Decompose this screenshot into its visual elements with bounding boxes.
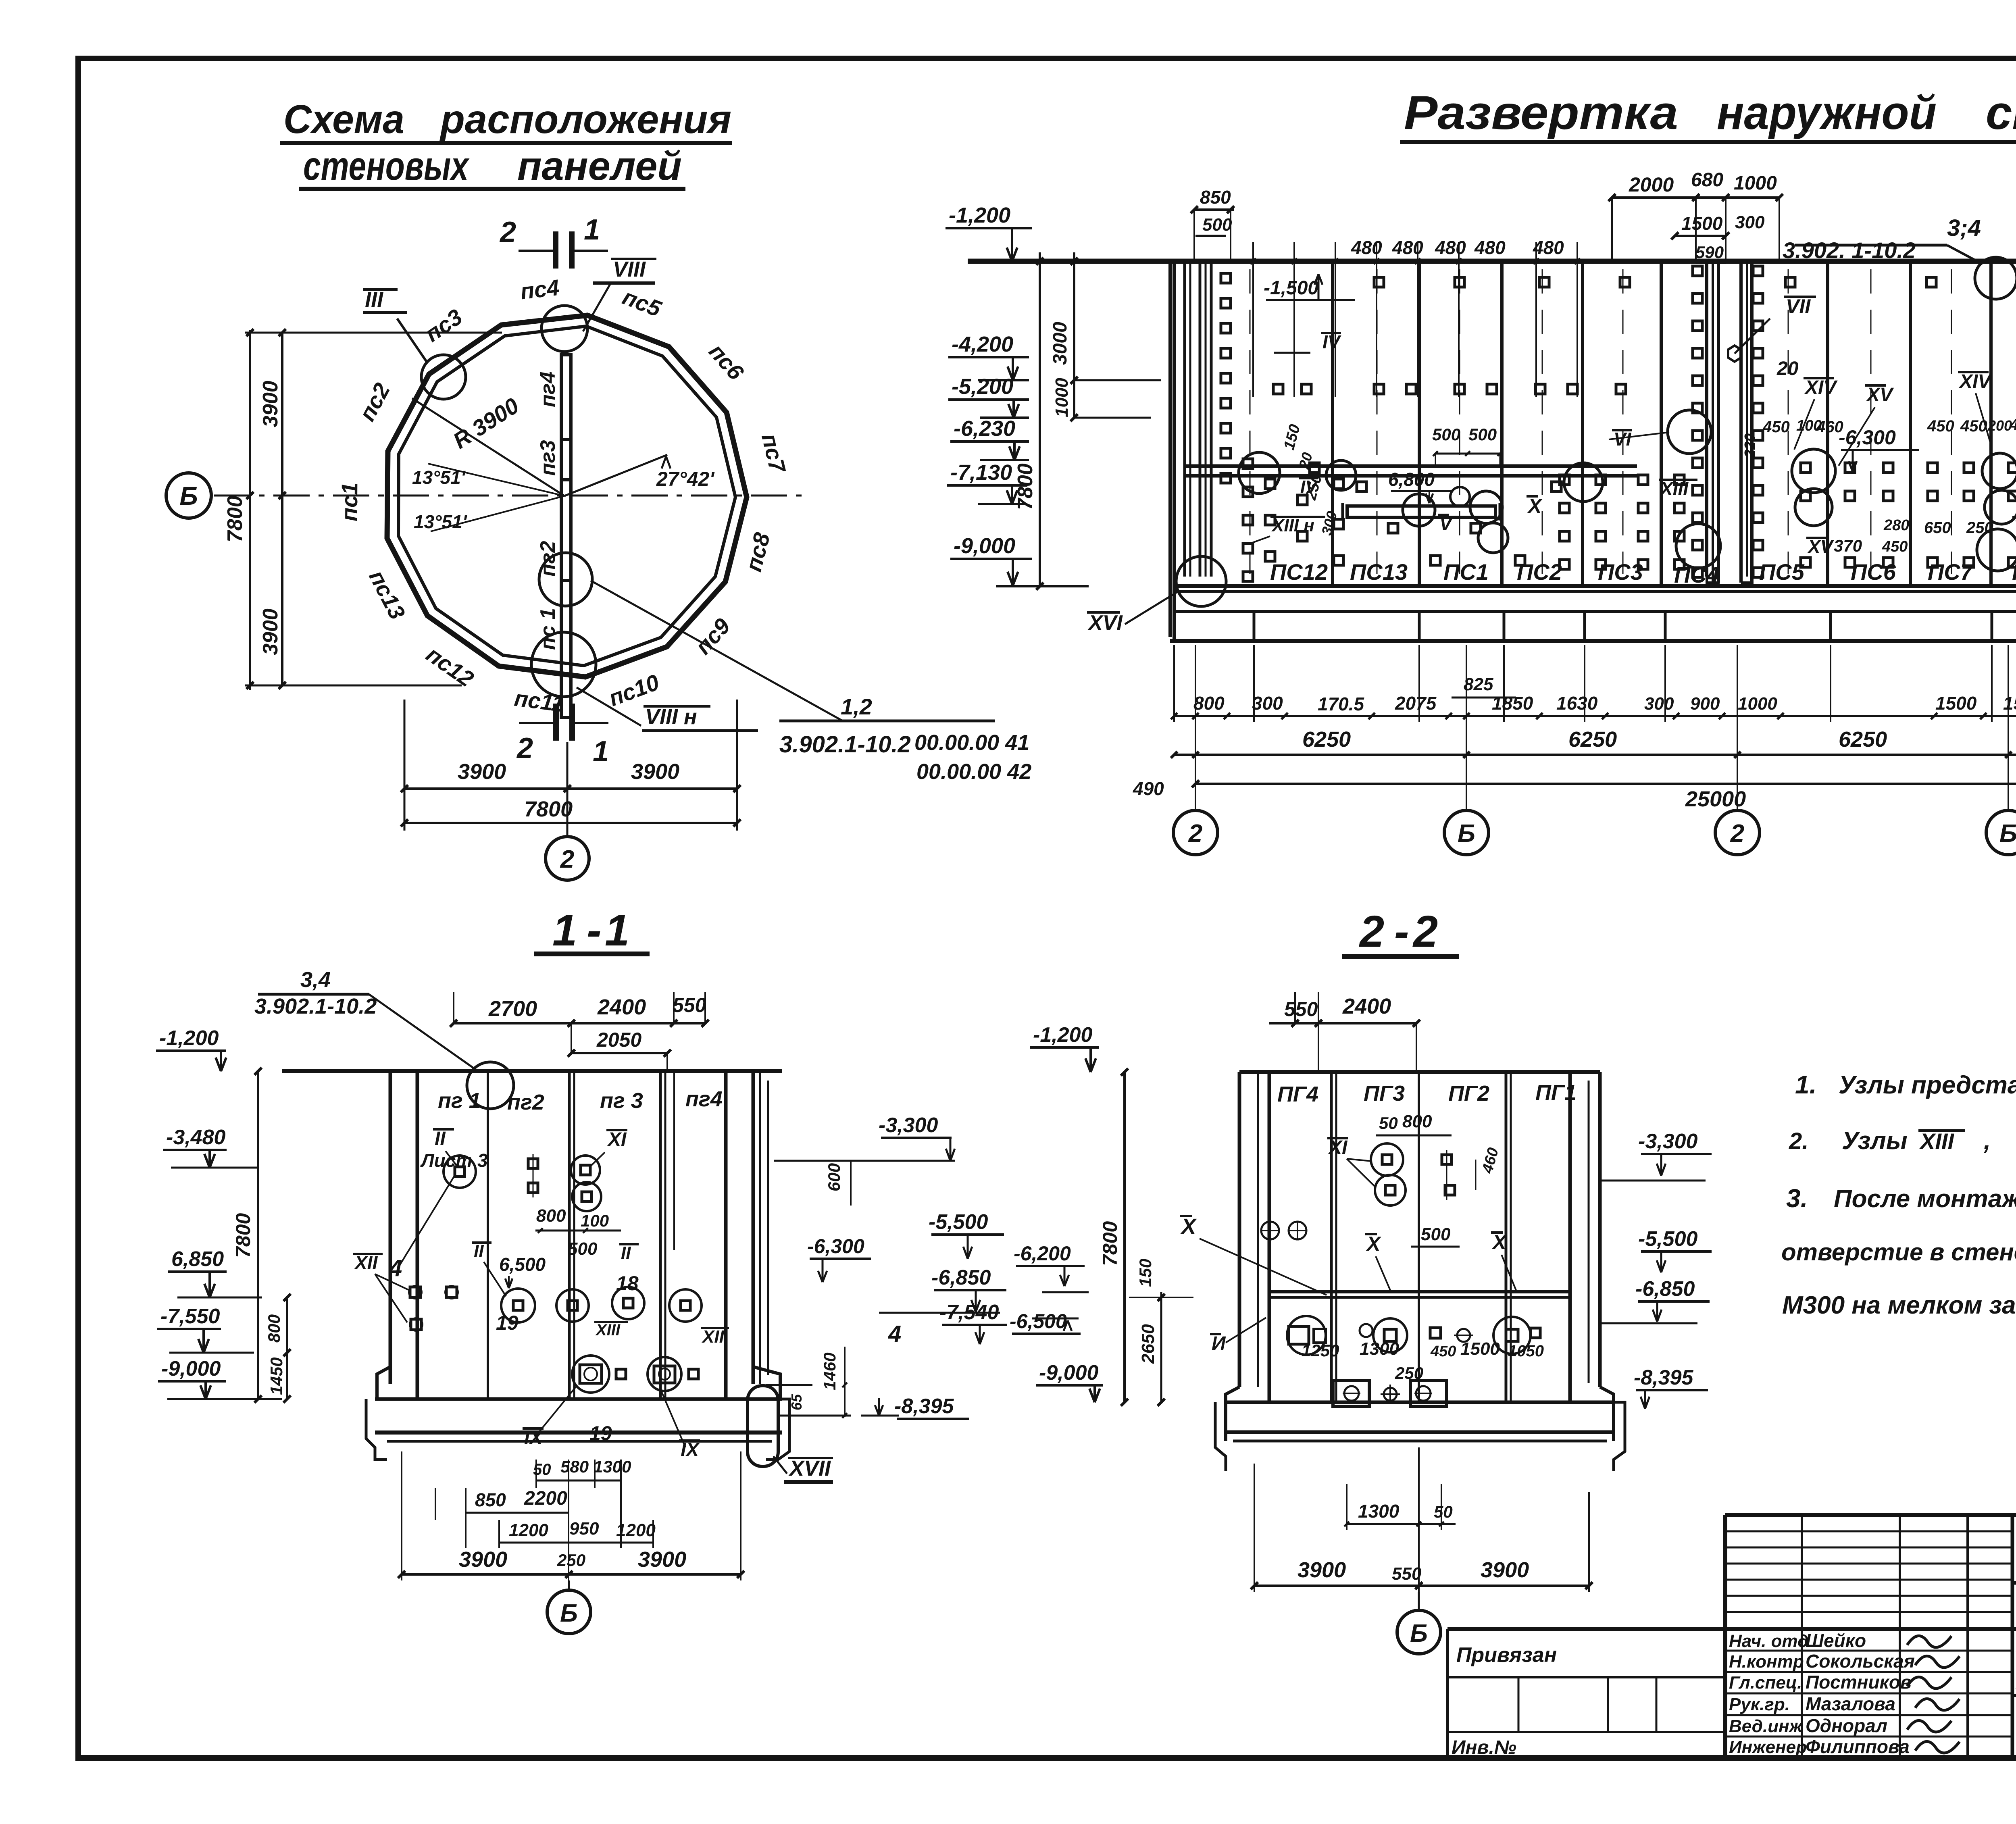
svg-text:1200: 1200 — [616, 1520, 656, 1540]
svg-text:-6,300: -6,300 — [1839, 426, 1896, 449]
svg-text:ПГ3: ПГ3 — [1364, 1081, 1405, 1106]
svg-text:6,800: 6,800 — [1388, 469, 1435, 490]
svg-text:300: 300 — [1318, 509, 1340, 537]
svg-text:VI: VI — [2014, 516, 2016, 537]
svg-text:480: 480 — [1351, 237, 1382, 258]
svg-text:пг 3: пг 3 — [600, 1089, 643, 1113]
development: dim row 25000 — [1192, 780, 2016, 811]
svg-text:-5,500: -5,500 — [929, 1210, 988, 1234]
svg-text:-1,200: -1,200 — [949, 203, 1010, 227]
development: wall top edge — [968, 259, 2016, 264]
svg-text:800: 800 — [536, 1206, 566, 1226]
section1: panel labels — [438, 1087, 723, 1114]
svg-text:2075: 2075 — [1395, 693, 1437, 714]
svg-text:1460: 1460 — [820, 1353, 839, 1390]
svg-text:19: 19 — [496, 1312, 519, 1334]
svg-text:2: 2 — [499, 216, 516, 248]
stamp: signature rows — [1725, 1629, 2012, 1758]
svg-text:1500: 1500 — [1681, 213, 1723, 234]
svg-text:1500: 1500 — [2003, 693, 2016, 714]
svg-text:II: II — [474, 1241, 484, 1261]
svg-text:150: 150 — [1136, 1259, 1155, 1287]
svg-text:480: 480 — [1392, 237, 1423, 258]
development: panel label ПС3 — [1598, 559, 1643, 585]
svg-text:Развертка: Развертка — [1404, 86, 1678, 140]
plan: radius line R3900 — [412, 393, 564, 496]
svg-text:-5,200: -5,200 — [952, 375, 1013, 399]
svg-text:480: 480 — [1474, 237, 1506, 258]
development: grid bubbles — [1173, 645, 2016, 855]
stamp: left edge of revision table — [1723, 1515, 1727, 1758]
svg-text:1000: 1000 — [1738, 694, 1777, 714]
svg-text:-6,300: -6,300 — [807, 1235, 864, 1258]
plan: bottom dim 3900+3900 — [401, 700, 741, 831]
svg-text:-: - — [587, 906, 602, 955]
section2: left elevations — [1010, 1023, 1193, 1406]
development: top dims 2000-680-1000 — [1608, 169, 1783, 263]
svg-text:2: 2 — [1412, 907, 1438, 956]
svg-text:280: 280 — [1883, 517, 1909, 534]
plan: wall panel label ПС3 — [420, 304, 467, 347]
svg-text:220: 220 — [1741, 433, 1758, 458]
svg-text:1200: 1200 — [509, 1520, 548, 1540]
svg-text:550: 550 — [1284, 998, 1318, 1020]
stamp: outer top line — [1725, 1513, 2016, 1517]
svg-text:VIII: VIII — [613, 257, 646, 281]
svg-text:460: 460 — [1816, 418, 1843, 436]
svg-text:XII: XII — [354, 1252, 378, 1273]
development: top dims 850/500/480 — [1191, 187, 1564, 261]
svg-text:19: 19 — [589, 1422, 612, 1445]
section1: left vertical dims — [232, 1068, 291, 1403]
svg-text:590: 590 — [1695, 243, 1724, 262]
svg-text:М300 на мелком заполните: М300 на мелком заполнителе. — [1782, 1291, 2016, 1319]
svg-text:1000: 1000 — [1734, 173, 1777, 194]
svg-text:3900: 3900 — [631, 760, 679, 784]
svg-text:X: X — [1491, 1231, 1507, 1253]
svg-text:1050: 1050 — [1508, 1342, 1544, 1360]
svg-text:XIII: XIII — [595, 1321, 621, 1339]
stamp: revision table — [1725, 1515, 2012, 1629]
note 3b — [1781, 1239, 2016, 1266]
plan: wall panel label ПС8 — [741, 530, 775, 574]
svg-text:ПГ1: ПГ1 — [1535, 1081, 1577, 1105]
svg-text:3;4: 3;4 — [1947, 215, 1981, 241]
svg-text:XV: XV — [1866, 384, 1894, 406]
svg-text:3900: 3900 — [1481, 1558, 1529, 1582]
development: node circles — [1239, 257, 2016, 581]
section1: callout 3,4 — [254, 968, 514, 1109]
svg-text:2: 2 — [560, 845, 574, 873]
development: panel label ПС2 — [1517, 559, 1562, 585]
svg-text:20: 20 — [1776, 358, 1799, 379]
svg-text:250: 250 — [557, 1551, 585, 1570]
plan: wall panel label ПС10 — [605, 669, 662, 711]
svg-text:Рук.гр.: Рук.гр. — [1729, 1695, 1790, 1714]
svg-text:XVI: XVI — [1087, 611, 1123, 635]
svg-text:Нач. отд: Нач. отд — [1729, 1631, 1808, 1651]
plan: axis Б center line — [214, 495, 802, 497]
development: panel label ПС8 — [2012, 559, 2016, 585]
development: wall bottom edge — [1174, 586, 2016, 591]
svg-text:ПГ2: ПГ2 — [1448, 1081, 1489, 1106]
svg-text:стеновых: стеновых — [303, 144, 470, 189]
svg-text:1500: 1500 — [1460, 1339, 1500, 1359]
section1: bottom slab — [366, 1367, 789, 1460]
svg-text:7800: 7800 — [524, 797, 573, 821]
svg-text:-5,500: -5,500 — [1638, 1227, 1698, 1251]
title: 2-2 — [1342, 907, 1459, 956]
plan: angle lines 13°51 — [412, 464, 564, 532]
svg-text:500: 500 — [568, 1239, 598, 1259]
svg-text:800: 800 — [1193, 693, 1225, 714]
svg-text:XI: XI — [1328, 1137, 1348, 1158]
svg-text:V: V — [1439, 513, 1453, 534]
svg-text:65: 65 — [788, 1394, 805, 1410]
plan: labels пг1-пг4 — [536, 371, 560, 650]
svg-text:490: 490 — [1133, 778, 1164, 799]
plan: wall panel label ПС13 — [364, 566, 410, 623]
svg-text:Б: Б — [560, 1599, 578, 1627]
svg-text:480: 480 — [1435, 237, 1466, 258]
svg-text:3900: 3900 — [458, 760, 506, 784]
svg-text:4: 4 — [389, 1255, 402, 1281]
svg-text:После монтажа сальников и: После монтажа сальников и приварки — [1834, 1185, 2016, 1213]
svg-text:ПС7: ПС7 — [1928, 559, 1974, 585]
svg-text:850: 850 — [475, 1489, 506, 1510]
svg-text:IV: IV — [1322, 331, 1341, 352]
title: стеновых панелей — [299, 144, 685, 189]
svg-text:3900: 3900 — [259, 381, 282, 427]
svg-text:170.5: 170.5 — [1318, 693, 1365, 714]
svg-text:VII: VII — [1786, 295, 1811, 318]
section1: top dims — [450, 992, 709, 1071]
svg-text:Н.контр: Н.контр — [1729, 1652, 1804, 1672]
section2: walls — [1239, 1072, 1600, 1402]
development: left elevation marks — [946, 203, 1089, 586]
svg-text:13°51': 13°51' — [412, 467, 466, 488]
svg-text:Мазалова: Мазалова — [1806, 1693, 1895, 1714]
svg-text:3900: 3900 — [459, 1547, 507, 1572]
section1: grid bubble Б — [547, 1580, 591, 1634]
svg-text:1,2: 1,2 — [841, 694, 872, 719]
svg-text:2400: 2400 — [1342, 994, 1391, 1018]
svg-text:отверстие в стене забетонир: отверстие в стене забетонировать бетоном… — [1781, 1239, 2016, 1266]
note 3a — [1786, 1184, 2016, 1213]
svg-text:500: 500 — [1421, 1224, 1451, 1244]
svg-text:1: 1 — [593, 735, 609, 768]
plan: wall panel label ПС11 — [513, 685, 565, 717]
svg-text:150: 150 — [1281, 423, 1304, 452]
svg-text:3900: 3900 — [259, 608, 282, 655]
plan: node circle III — [363, 288, 466, 399]
title: Схема расположения — [280, 97, 732, 143]
section1: top edge — [282, 1069, 782, 1073]
svg-text:пс7: пс7 — [757, 431, 791, 476]
svg-text:Однорал: Однорал — [1806, 1715, 1887, 1736]
svg-text:XIV: XIV — [1958, 371, 1992, 392]
svg-text:1850: 1850 — [1492, 693, 1533, 714]
svg-text:Вед.инж: Вед.инж — [1729, 1716, 1804, 1736]
plan: section mark bottom — [516, 704, 609, 768]
svg-text:550: 550 — [673, 994, 706, 1016]
svg-text:800: 800 — [1402, 1112, 1432, 1131]
svg-text:пс1: пс1 — [337, 482, 362, 521]
section2: panel labels — [1277, 1081, 1577, 1106]
svg-text:Постников: Постников — [1806, 1672, 1912, 1693]
plan: grid bubble Б — [166, 473, 211, 518]
development: panel label ПС13 — [1350, 559, 1408, 585]
svg-text:И: И — [1212, 1333, 1226, 1354]
svg-text:XIV: XIV — [1804, 377, 1838, 398]
section2: right elevations — [1600, 1130, 1712, 1409]
svg-text:пг4: пг4 — [536, 371, 560, 407]
section1: foot detail XVII — [748, 1386, 833, 1482]
svg-text:1450: 1450 — [267, 1358, 286, 1395]
section1: left elevations — [156, 1027, 282, 1399]
svg-text:3.902.1-10.2: 3.902.1-10.2 — [254, 994, 377, 1018]
svg-text:2650: 2650 — [1138, 1324, 1158, 1364]
plan: left dim lines — [223, 329, 502, 690]
svg-text:-6,200: -6,200 — [1014, 1242, 1071, 1265]
development: panel label ПС1 — [1443, 559, 1489, 585]
svg-text:-: - — [1394, 907, 1409, 956]
svg-text:3000: 3000 — [1050, 322, 1071, 365]
development: panel label ПС6 — [1851, 559, 1896, 585]
svg-text:пг3: пг3 — [536, 440, 560, 476]
development: embedded plate squares — [1221, 266, 2016, 581]
svg-text:3.902. 1-10.2: 3.902. 1-10.2 — [1783, 237, 1916, 263]
svg-text:ПС5: ПС5 — [1759, 559, 1805, 585]
svg-text:1300: 1300 — [594, 1457, 631, 1476]
svg-text:460: 460 — [1479, 1146, 1502, 1175]
svg-text:пс6: пс6 — [704, 339, 749, 385]
svg-text:Привязан: Привязан — [1456, 1643, 1557, 1667]
development: node labels — [1087, 274, 2016, 635]
svg-text:Шейко: Шейко — [1806, 1630, 1866, 1651]
section1: interior joints — [488, 1071, 674, 1399]
svg-text:200: 200 — [1987, 417, 2012, 434]
svg-text:3.: 3. — [1786, 1184, 1808, 1213]
svg-text:2: 2 — [1359, 907, 1384, 956]
svg-text:-6,230: -6,230 — [954, 416, 1015, 441]
development: panel label ПС4 — [1674, 562, 1719, 587]
svg-text:3900: 3900 — [638, 1547, 686, 1572]
development: dim row 6250 — [1133, 727, 2016, 799]
svg-text:XVII: XVII — [788, 1456, 831, 1480]
svg-text:1250: 1250 — [1302, 1341, 1339, 1360]
svg-text:пс5: пс5 — [619, 284, 665, 322]
svg-text:7800: 7800 — [1099, 1221, 1121, 1266]
note 1 — [1795, 1069, 2016, 1099]
plan: wall panel label ПС9 — [690, 613, 735, 659]
section2: grid bubble Б — [1397, 1592, 1441, 1654]
svg-text:XV: XV — [1807, 536, 1834, 557]
svg-text:Филиппова: Филиппова — [1806, 1736, 1910, 1757]
plan: wall panel label ПС4 — [519, 275, 560, 304]
svg-text:ПС4: ПС4 — [1674, 562, 1719, 587]
development: panel label ПС7 — [1928, 559, 1974, 585]
plan: leader 1,2 and doc refs — [591, 581, 1031, 784]
svg-text:1630: 1630 — [1556, 693, 1598, 714]
svg-text:850: 850 — [1200, 187, 1231, 208]
development: panel label ПС12 — [1270, 559, 1328, 585]
svg-text:50: 50 — [1379, 1114, 1398, 1133]
svg-text:XI: XI — [607, 1129, 627, 1150]
svg-text:370: 370 — [1834, 536, 1862, 555]
svg-text:7800: 7800 — [1014, 463, 1037, 510]
svg-text:-1,500: -1,500 — [1264, 277, 1318, 299]
svg-text:,: , — [1983, 1127, 1991, 1155]
development: panel joints — [1333, 261, 2016, 586]
development: left vertical dims — [1014, 252, 1161, 590]
svg-text:ПС1: ПС1 — [1443, 559, 1489, 585]
svg-text:-9,000: -9,000 — [1039, 1361, 1099, 1385]
svg-text:2.: 2. — [1789, 1128, 1808, 1154]
svg-text:1300: 1300 — [1358, 1501, 1400, 1522]
note 3c — [1782, 1291, 2016, 1319]
development: pipe strip — [1185, 425, 1637, 521]
svg-text:18: 18 — [616, 1272, 639, 1295]
stamp: TP cell + number — [2012, 1515, 2016, 1758]
section2: interior details — [1180, 1112, 1544, 1406]
plan: section mark top — [499, 214, 608, 269]
svg-text:6,850: 6,850 — [171, 1247, 224, 1271]
svg-text:550: 550 — [1392, 1564, 1422, 1584]
svg-text:6250: 6250 — [1302, 727, 1351, 752]
svg-text:стены: стены — [1986, 86, 2016, 140]
svg-text:Б: Б — [1410, 1620, 1428, 1647]
svg-text:ПС6: ПС6 — [1851, 559, 1896, 585]
plan: angle line 27°42 — [564, 455, 715, 496]
svg-text:-3,300: -3,300 — [879, 1114, 938, 1137]
section2: bottom dims — [1251, 1447, 1593, 1592]
section2: bottom slab — [1215, 1387, 1625, 1471]
svg-text:пс2: пс2 — [354, 379, 395, 425]
svg-text:Б: Б — [1458, 820, 1475, 847]
svg-text:00.00.00 42: 00.00.00 42 — [916, 760, 1031, 784]
svg-text:7800: 7800 — [223, 496, 247, 542]
svg-text:900: 900 — [1690, 694, 1720, 714]
development: left outer edge — [1170, 261, 1174, 641]
svg-text:расположения: расположения — [439, 97, 731, 142]
svg-text:-8,395: -8,395 — [894, 1395, 954, 1418]
section1: right elevations — [766, 1114, 1007, 1419]
svg-text:1500: 1500 — [1935, 693, 1977, 714]
svg-text:Узлы представлены на л.: Узлы представлены на л. — [1839, 1071, 2016, 1099]
stamp: main divider — [1447, 1627, 2016, 1631]
development: ring beam band — [1174, 610, 2016, 613]
development: corner circle XVI — [1176, 556, 1226, 606]
svg-text:2400: 2400 — [597, 995, 646, 1019]
plan: wall panel label ПС5 — [619, 284, 665, 322]
development: top dim witness 480 — [1250, 242, 1580, 397]
svg-text:наружной: наружной — [1717, 86, 1937, 140]
svg-text:450: 450 — [1960, 417, 1987, 435]
section1: interior details — [353, 1128, 729, 1461]
svg-text:XIII: XIII — [1919, 1129, 1954, 1154]
svg-text:450: 450 — [1927, 417, 1954, 435]
svg-text:100: 100 — [581, 1211, 609, 1230]
svg-text:Б: Б — [1999, 820, 2016, 847]
svg-text:27°42': 27°42' — [656, 468, 715, 490]
plan: node circle mid — [539, 553, 592, 606]
svg-text:6250: 6250 — [1839, 727, 1887, 752]
svg-text:XII: XII — [701, 1327, 725, 1347]
development: panel label ПС5 — [1759, 559, 1805, 585]
section2: top edge — [1239, 1070, 1600, 1074]
svg-text:2: 2 — [1188, 820, 1202, 847]
svg-text:III: III — [365, 288, 383, 312]
svg-text:1: 1 — [552, 906, 577, 955]
svg-text:пс4: пс4 — [519, 275, 560, 304]
plan: wall panel label ПС2 — [354, 379, 395, 425]
svg-text:950: 950 — [569, 1519, 599, 1539]
svg-text:2000: 2000 — [1629, 173, 1674, 196]
svg-text:Инв.№: Инв.№ — [1452, 1737, 1516, 1758]
svg-text:3.902.1-10.2: 3.902.1-10.2 — [779, 731, 911, 758]
svg-text:-7,550: -7,550 — [160, 1305, 220, 1328]
svg-text:-3,480: -3,480 — [166, 1126, 226, 1149]
svg-text:450: 450 — [1430, 1343, 1456, 1360]
development: left edge groove lines — [1185, 261, 1211, 577]
svg-text:-7,540: -7,540 — [939, 1301, 999, 1324]
svg-text:X: X — [1180, 1214, 1197, 1239]
development: callout 3;4 — [1783, 215, 1983, 264]
svg-text:-7,130: -7,130 — [950, 460, 1012, 485]
title: Развертка наружной стены — [1400, 86, 2016, 142]
development: panel centerlines — [1250, 269, 2016, 574]
plan: label VIII H — [577, 687, 758, 731]
svg-text:II: II — [621, 1243, 631, 1263]
svg-text:Схема: Схема — [283, 97, 404, 142]
svg-text:II: II — [435, 1128, 446, 1149]
svg-text:3900: 3900 — [1297, 1558, 1346, 1582]
svg-text:13°51': 13°51' — [414, 511, 468, 532]
section1: bottom dims — [398, 1451, 744, 1580]
svg-text:450: 450 — [1882, 538, 1908, 555]
plan: grid bubble 2 bottom — [546, 831, 589, 880]
development: expansion joint — [1707, 261, 1752, 586]
svg-text:-6,850: -6,850 — [1635, 1277, 1695, 1301]
svg-text:пс8: пс8 — [741, 530, 775, 574]
plan: wall panel label ПС12 — [422, 641, 479, 692]
svg-text:00.00.00 41: 00.00.00 41 — [914, 731, 1029, 755]
plan: central bar пг1-пг4 — [561, 355, 571, 718]
section2: interior joints — [1331, 1072, 1511, 1402]
svg-text:Б: Б — [179, 481, 198, 510]
svg-text:1: 1 — [605, 906, 629, 955]
svg-text:6250: 6250 — [1568, 727, 1617, 752]
section1: walls — [390, 1071, 768, 1399]
svg-text:50: 50 — [1434, 1502, 1453, 1521]
svg-text:600: 600 — [825, 1163, 843, 1191]
svg-text:-6,850: -6,850 — [931, 1266, 991, 1289]
plan: node circle VIII — [541, 257, 656, 352]
plan: node circle bottom — [531, 632, 596, 697]
svg-text:VIII н: VIII н — [645, 705, 697, 729]
svg-text:440: 440 — [2010, 416, 2016, 433]
svg-text:Гл.спец.: Гл.спец. — [1729, 1673, 1802, 1693]
svg-text:3,4: 3,4 — [300, 968, 331, 992]
svg-text:-9,000: -9,000 — [954, 534, 1015, 558]
svg-text:250: 250 — [1966, 519, 1993, 537]
svg-text:-4,200: -4,200 — [952, 332, 1013, 356]
svg-text:ПС12: ПС12 — [1270, 559, 1328, 585]
svg-text:пс9: пс9 — [690, 613, 735, 659]
svg-text:300: 300 — [1644, 694, 1674, 714]
note 2 — [1789, 1127, 2016, 1155]
